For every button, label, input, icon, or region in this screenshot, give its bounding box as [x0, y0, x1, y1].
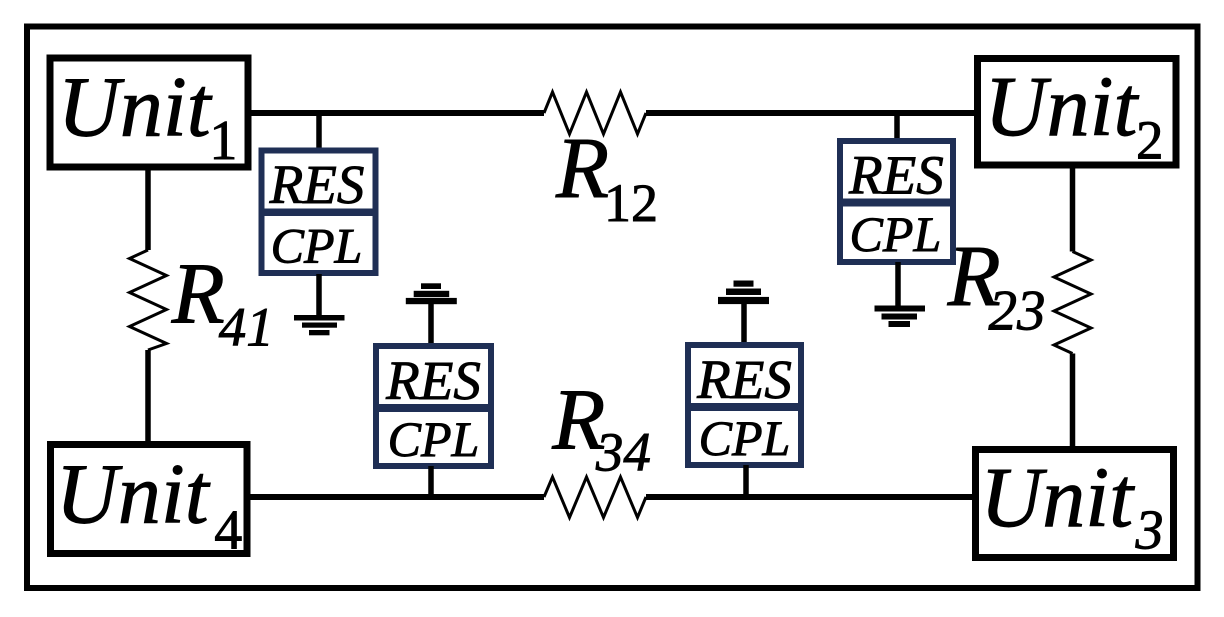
svg-text:Unit: Unit [58, 59, 213, 155]
svg-text:4: 4 [214, 500, 242, 562]
svg-text:CPL: CPL [388, 411, 480, 467]
svg-text:RES: RES [848, 145, 944, 206]
wire R23 lower [1070, 354, 1076, 450]
coupler box RES/CPL top-right [837, 141, 956, 262]
wire bottom-left coupler to bus [428, 466, 434, 499]
resistor R23 [1054, 252, 1091, 354]
svg-text:CPL: CPL [850, 206, 942, 262]
svg-text:R: R [171, 244, 225, 341]
svg-text:R: R [555, 119, 609, 216]
wire bottom bus left segment [247, 494, 544, 500]
coupler box RES/CPL bottom-left [373, 346, 494, 467]
wire top bus left segment [248, 110, 544, 116]
wire top-left coupler to ground [316, 274, 322, 316]
resistor R12 [544, 92, 646, 134]
svg-text:34: 34 [595, 422, 651, 483]
unit U2 [978, 58, 1177, 171]
ground bottom-left (inverted) [406, 283, 457, 304]
svg-text:CPL: CPL [699, 410, 791, 466]
svg-text:41: 41 [219, 297, 274, 358]
ground top-left [294, 315, 345, 335]
ground top-right [875, 306, 926, 328]
wire top-right coupler to ground [895, 262, 901, 306]
wire R23 upper [1070, 165, 1076, 252]
unit U1 [50, 58, 248, 172]
svg-text:CPL: CPL [271, 218, 363, 274]
wire ground to bottom-left coupler [428, 303, 434, 346]
svg-text:Unit: Unit [980, 449, 1135, 545]
svg-text:1: 1 [209, 110, 237, 172]
svg-text:Unit: Unit [985, 58, 1140, 154]
wire stub top-left coupler [316, 110, 322, 150]
wire bottom-right coupler to bus [743, 465, 749, 499]
unit U4 [51, 445, 248, 562]
resistor R34 [544, 477, 646, 518]
svg-text:12: 12 [604, 173, 658, 233]
wire R41 upper [145, 167, 151, 250]
svg-text:23: 23 [989, 280, 1046, 343]
wire R41 lower [145, 350, 151, 444]
wire top bus right segment [646, 110, 977, 116]
wire ground to bottom-right coupler [741, 302, 747, 345]
coupler box RES/CPL bottom-right [685, 345, 804, 466]
svg-text:RES: RES [269, 154, 365, 215]
unit U3 [976, 449, 1174, 562]
svg-text:3: 3 [1135, 500, 1164, 562]
resistor R41 [130, 250, 167, 350]
wire stub top-right coupler [894, 110, 900, 141]
svg-text:RES: RES [696, 349, 792, 410]
svg-text:RES: RES [385, 350, 481, 411]
wire bottom bus right segment [646, 494, 975, 500]
svg-text:2: 2 [1136, 110, 1164, 171]
svg-text:Unit: Unit [56, 446, 211, 542]
ground bottom-right (inverted) [718, 281, 769, 305]
coupler box RES/CPL top-left [259, 151, 379, 274]
